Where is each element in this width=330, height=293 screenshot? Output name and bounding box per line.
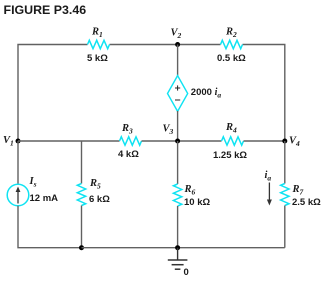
wire: current source to bottom-left corner — [18, 206, 82, 248]
resistor R2 — [221, 40, 243, 48]
node V1 — [16, 139, 21, 144]
resistor R1 — [88, 40, 110, 48]
wire: R5 to bottom — [81, 206, 83, 248]
node V2 — [175, 42, 180, 47]
resistor R7 — [281, 184, 289, 206]
wire: dependent source to V3 — [177, 111, 179, 141]
dependent source 2000 ia — [168, 76, 188, 112]
wire: bottom — [82, 247, 285, 249]
resistor R4 — [222, 137, 244, 145]
wire: V3 down to R6 — [177, 141, 179, 184]
svg-text:5 kΩ: 5 kΩ — [87, 53, 108, 64]
svg-text:4 kΩ: 4 kΩ — [118, 149, 139, 160]
svg-text:2000 ia: 2000 ia — [191, 87, 222, 100]
wire: middle V1 to R3 — [18, 140, 120, 142]
wire: R5 branch top — [81, 141, 83, 184]
svg-text:2.5 kΩ: 2.5 kΩ — [292, 197, 321, 208]
node V3 — [175, 139, 180, 144]
svg-text:6 kΩ: 6 kΩ — [89, 194, 110, 205]
ground — [177, 248, 179, 260]
resistor R5 — [77, 184, 85, 206]
wire: top left segment — [18, 45, 88, 142]
current source Is — [7, 184, 29, 206]
svg-text:12 mA: 12 mA — [30, 193, 59, 204]
wire: R6 to bottom — [177, 206, 179, 248]
svg-text:0: 0 — [184, 267, 189, 278]
svg-text:FIGURE P3.46: FIGURE P3.46 — [4, 3, 87, 17]
svg-text:0.5 kΩ: 0.5 kΩ — [217, 53, 246, 64]
resistor R3 — [120, 137, 142, 145]
wire: V4 down to R7 — [284, 141, 286, 184]
wire: V2 down to dependent source — [177, 45, 179, 77]
wire: R3 to V3 — [142, 140, 222, 142]
svg-text:1.25 kΩ: 1.25 kΩ — [213, 150, 247, 161]
wire: top, R1 to V2 — [110, 44, 221, 46]
wire: R4 to V4 — [244, 140, 285, 142]
wire: left edge V1 down to current source — [17, 141, 19, 185]
node bottom at R5 — [79, 245, 84, 250]
node V4 — [282, 139, 287, 144]
svg-text:10 kΩ: 10 kΩ — [184, 197, 210, 208]
node ground junction — [175, 245, 180, 250]
resistor R6 — [173, 184, 181, 206]
wire: R7 to bottom-right corner — [284, 206, 286, 248]
wire: top right corner down to V4 — [243, 45, 285, 142]
